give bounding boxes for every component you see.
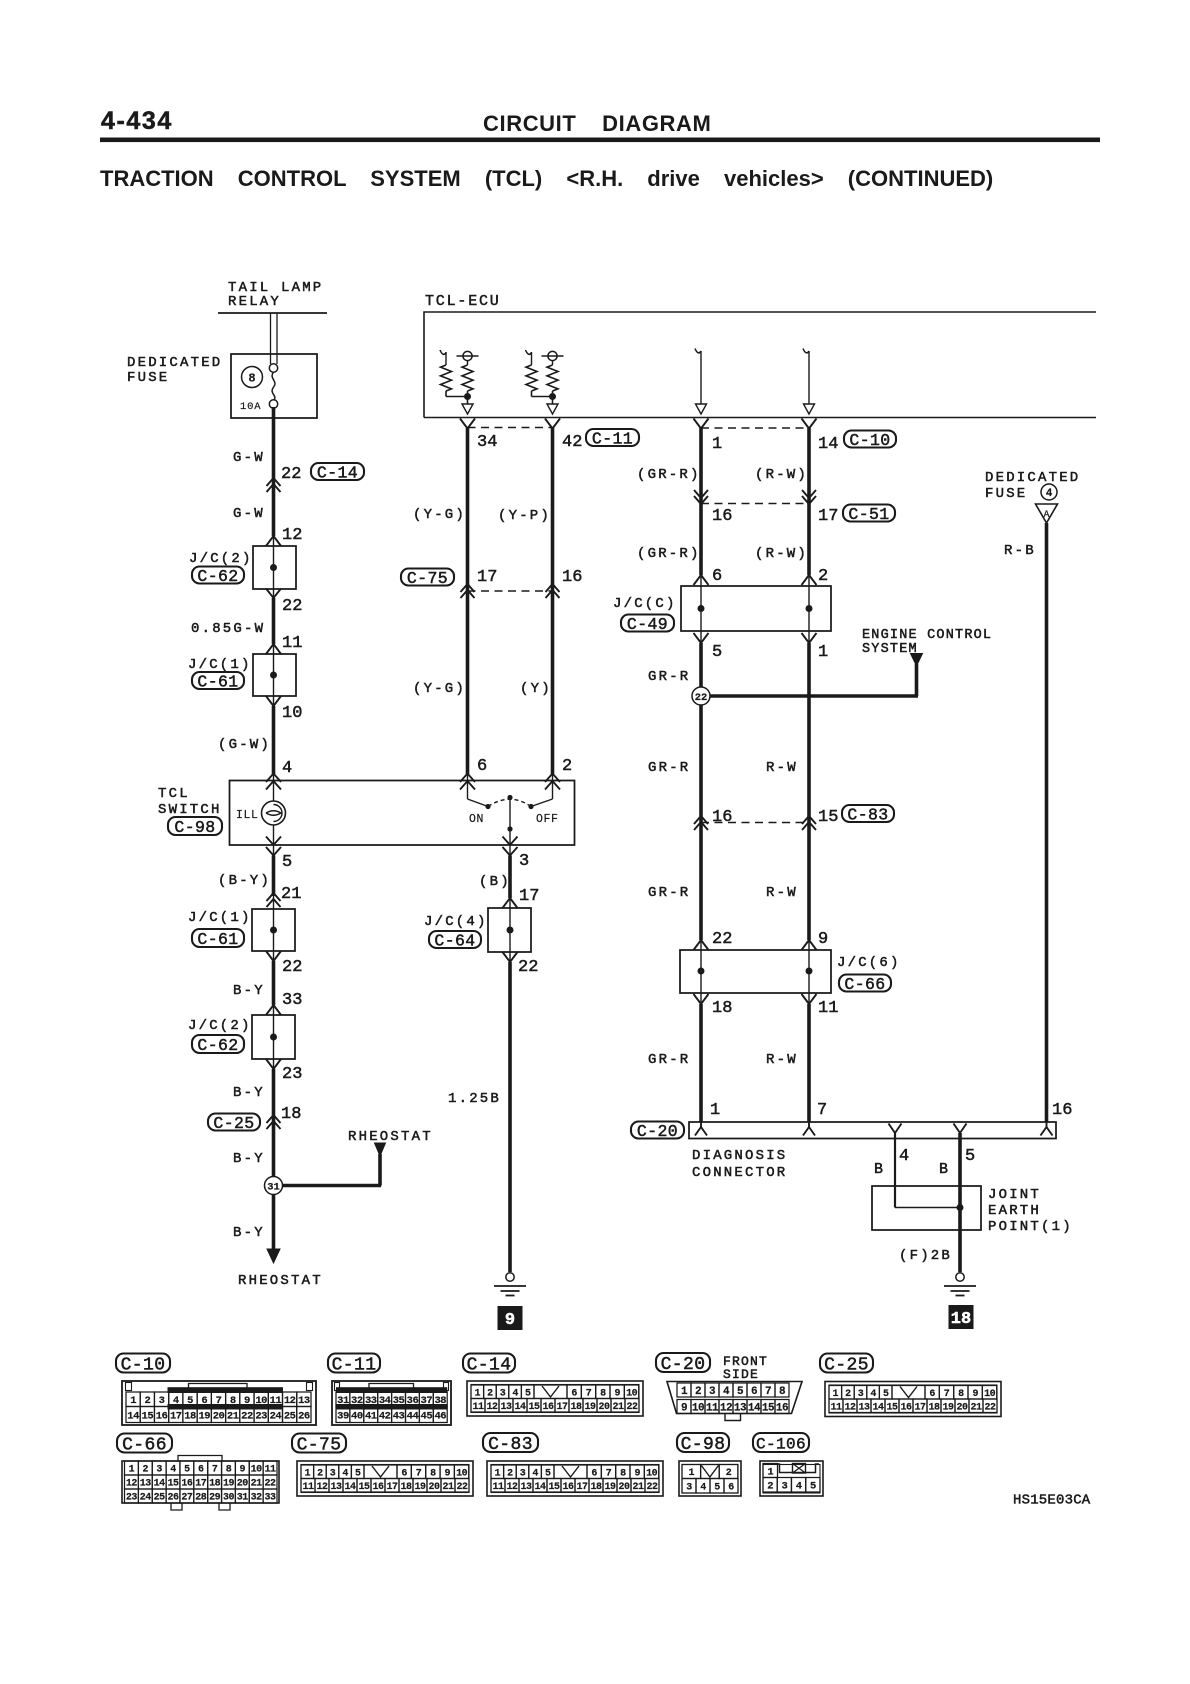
svg-text:16: 16 <box>372 1482 384 1493</box>
svg-text:19: 19 <box>414 1482 426 1493</box>
svg-text:24: 24 <box>140 1493 152 1504</box>
svg-text:32: 32 <box>251 1493 263 1504</box>
switch OFF contact <box>528 799 558 826</box>
svg-text:J/C(4): J/C(4) <box>424 914 488 930</box>
tail lamp relay bus line <box>218 312 327 314</box>
pin 22 and C-14 label <box>281 463 364 484</box>
svg-text:6: 6 <box>571 1388 577 1399</box>
ECU internal down arrow pin 1 <box>695 349 707 415</box>
label R-W third <box>766 885 798 901</box>
svg-text:10: 10 <box>456 1468 468 1479</box>
wire R-B <box>1045 523 1049 1122</box>
pin 11 <box>282 634 302 653</box>
pin 23 <box>282 1065 302 1084</box>
svg-text:11: 11 <box>492 1482 504 1493</box>
svg-text:13: 13 <box>520 1482 532 1493</box>
pin 5 <box>282 853 292 872</box>
dedicated fuse label left <box>127 355 222 386</box>
wires thin inside J/C(6) <box>701 950 809 993</box>
svg-text:8: 8 <box>226 1465 232 1476</box>
svg-text:1: 1 <box>130 1395 136 1407</box>
svg-text:31: 31 <box>267 1181 280 1193</box>
wire thin inside J/C(2) lower <box>273 1015 275 1059</box>
label B-Y bottom <box>233 1225 265 1241</box>
pin forks into J/C(6) <box>694 940 817 950</box>
svg-text:C-64: C-64 <box>434 931 475 950</box>
svg-text:22: 22 <box>712 930 732 949</box>
pin forks into J/C(C) <box>694 575 817 585</box>
svg-text:9: 9 <box>681 1402 687 1414</box>
svg-text:7: 7 <box>606 1468 612 1479</box>
svg-text:6: 6 <box>591 1468 597 1479</box>
pin 2 label <box>562 757 572 776</box>
svg-text:G-W: G-W <box>233 450 265 466</box>
label GR-R third <box>648 885 690 901</box>
svg-text:TCL-ECU: TCL-ECU <box>425 293 501 310</box>
connector crossing C-51 <box>694 490 816 504</box>
svg-text:3: 3 <box>781 1481 787 1493</box>
svg-text:22: 22 <box>518 958 538 977</box>
svg-text:19: 19 <box>223 1479 235 1490</box>
svg-text:17: 17 <box>170 1410 182 1422</box>
svg-text:45: 45 <box>421 1410 433 1422</box>
svg-text:GR-R: GR-R <box>648 1052 690 1068</box>
svg-text:14: 14 <box>127 1410 139 1422</box>
svg-text:C-62: C-62 <box>197 567 238 586</box>
ILL lamp symbol <box>236 801 286 825</box>
pin fork 10 below J/C(1) <box>266 696 281 706</box>
svg-text:20: 20 <box>956 1402 968 1413</box>
svg-text:OFF: OFF <box>536 813 559 826</box>
ECU pull-up resistor pair B <box>526 350 564 414</box>
pin fork 42 <box>545 419 560 429</box>
svg-text:RELAY: RELAY <box>228 294 281 310</box>
wire B switch to J/C(4) <box>509 846 511 908</box>
C-75 label and pins 17 16 <box>401 568 582 588</box>
pin 3 <box>519 852 529 871</box>
svg-text:3: 3 <box>686 1482 692 1493</box>
svg-text:33: 33 <box>282 991 302 1010</box>
svg-text:5: 5 <box>714 1482 720 1493</box>
connector pin fork 22 C-14 crossing <box>267 478 281 492</box>
svg-text:26: 26 <box>168 1493 180 1504</box>
svg-text:22: 22 <box>265 1479 277 1490</box>
pin fork 6 into switch <box>460 774 475 790</box>
svg-text:2: 2 <box>767 1481 773 1493</box>
pin 7 diag <box>817 1101 827 1120</box>
svg-text:(G-W): (G-W) <box>218 737 271 753</box>
connector crossing C-75 <box>461 584 560 598</box>
svg-text:(F)2B: (F)2B <box>899 1248 952 1264</box>
TCL-ECU label <box>425 293 501 310</box>
svg-text:13: 13 <box>734 1402 747 1414</box>
svg-text:7: 7 <box>586 1388 592 1399</box>
svg-text:J/C(6): J/C(6) <box>837 955 901 971</box>
J/C(C) label <box>613 596 677 634</box>
pin 12 <box>282 526 302 545</box>
label B-Y lower <box>233 1151 265 1167</box>
pin 2 JCC <box>818 567 828 586</box>
label 1.25B <box>448 1091 501 1107</box>
svg-text:14: 14 <box>818 435 838 454</box>
svg-text:9: 9 <box>240 1465 246 1476</box>
pin 42 and C-11 label <box>562 429 639 452</box>
svg-text:43: 43 <box>393 1410 405 1422</box>
svg-text:1: 1 <box>767 1466 773 1478</box>
label (Y-G) lower <box>413 681 466 697</box>
svg-text:4: 4 <box>532 1468 538 1479</box>
ground id 9 <box>498 1306 523 1330</box>
svg-text:11: 11 <box>830 1402 842 1413</box>
svg-text:9: 9 <box>818 930 828 949</box>
pin 17 and C-51 label <box>818 505 895 527</box>
svg-text:7: 7 <box>212 1465 218 1476</box>
svg-text:2: 2 <box>562 757 572 776</box>
svg-text:42: 42 <box>562 433 582 452</box>
rheostat branch label <box>348 1129 433 1145</box>
svg-text:31: 31 <box>237 1493 249 1504</box>
svg-text:14: 14 <box>534 1482 546 1493</box>
svg-text:1: 1 <box>818 643 828 662</box>
label (Y-G) upper <box>413 507 466 523</box>
svg-text:11: 11 <box>818 999 838 1018</box>
pin fork 2 into switch <box>545 774 560 790</box>
pin 34 <box>477 433 497 452</box>
svg-text:6: 6 <box>728 1482 734 1493</box>
label GR-R fourth <box>648 1052 690 1068</box>
pin fork 16 inside <box>1041 1122 1053 1136</box>
svg-text:5: 5 <box>355 1468 361 1479</box>
svg-text:22: 22 <box>626 1402 638 1413</box>
pin fork 11 into J/C(1) <box>266 644 281 654</box>
wire thin inside J/C(2) <box>273 546 275 589</box>
svg-text:16: 16 <box>712 808 732 827</box>
junction circle 31 <box>265 1177 283 1195</box>
connector view C-75 <box>292 1434 473 1497</box>
wire GR-R J/C(C) to J/C(6) <box>700 631 702 950</box>
engine control arrow <box>911 654 923 697</box>
pin 22 below J/C(2) <box>282 597 302 616</box>
svg-text:14: 14 <box>344 1482 356 1493</box>
connector crossing C-83 <box>694 816 816 830</box>
connector view C-11 <box>328 1354 451 1426</box>
label (R-W) upper <box>755 467 808 483</box>
rheostat branch arrow <box>375 1143 386 1186</box>
svg-text:18: 18 <box>400 1482 412 1493</box>
svg-text:FUSE: FUSE <box>127 370 169 386</box>
svg-text:21: 21 <box>612 1402 624 1413</box>
svg-text:15: 15 <box>142 1410 154 1422</box>
svg-text:22: 22 <box>984 1402 996 1413</box>
svg-text:C-66: C-66 <box>844 975 885 994</box>
pin fork 33 into J/C(2) lower <box>266 1005 281 1015</box>
svg-text:12: 12 <box>844 1402 856 1413</box>
svg-text:12: 12 <box>486 1402 498 1413</box>
wire thin inside J/C(4) <box>509 908 511 952</box>
svg-text:5: 5 <box>184 1465 190 1476</box>
svg-text:(Y-G): (Y-G) <box>413 681 466 697</box>
svg-text:C-14: C-14 <box>317 463 358 482</box>
svg-text:ENGINE CONTROL: ENGINE CONTROL <box>862 628 992 643</box>
pin 5 label <box>965 1147 975 1166</box>
svg-text:R-W: R-W <box>766 885 798 901</box>
svg-text:3: 3 <box>519 852 529 871</box>
TCL-ECU box outline <box>424 312 1096 418</box>
ground id 18 <box>949 1305 974 1329</box>
svg-text:11: 11 <box>706 1402 719 1414</box>
label (B) <box>479 874 511 890</box>
svg-text:4: 4 <box>899 1147 909 1166</box>
svg-text:21: 21 <box>281 885 301 904</box>
svg-text:39: 39 <box>337 1410 349 1422</box>
svg-text:(Y-G): (Y-G) <box>413 507 466 523</box>
svg-text:34: 34 <box>477 433 497 452</box>
svg-text:10: 10 <box>646 1468 658 1479</box>
pin fork 5 inside <box>954 1124 967 1134</box>
svg-text:B-Y: B-Y <box>233 1225 265 1241</box>
svg-text:HS15E03CA: HS15E03CA <box>1013 1493 1091 1509</box>
pin 18 below JC6 <box>712 999 732 1018</box>
pin forks 3 below switch <box>503 837 518 856</box>
svg-text:21: 21 <box>227 1410 239 1422</box>
svg-text:C-20: C-20 <box>661 1355 706 1375</box>
pin 18 and C-25 label <box>208 1105 301 1133</box>
svg-text:14: 14 <box>748 1402 761 1414</box>
connector view C-10 <box>116 1354 316 1426</box>
ILL lamp wire <box>273 781 275 845</box>
pin fork 17 into J/C(4) <box>503 898 518 908</box>
pin 4 label <box>899 1147 909 1166</box>
svg-text:9: 9 <box>614 1388 620 1399</box>
svg-text:5: 5 <box>525 1388 531 1399</box>
svg-text:20: 20 <box>598 1402 610 1413</box>
svg-text:25: 25 <box>284 1410 296 1422</box>
svg-text:16: 16 <box>181 1479 193 1490</box>
label (GR-R) upper <box>637 467 701 483</box>
svg-text:2: 2 <box>818 567 828 586</box>
wire B-Y J/C(1) to J/C(2) <box>273 951 275 1015</box>
junction circle 22 <box>692 687 710 705</box>
connector crossing C-25 pin 18 <box>267 1115 281 1129</box>
svg-text:4: 4 <box>700 1482 706 1493</box>
svg-text:22: 22 <box>456 1482 468 1493</box>
svg-text:46: 46 <box>434 1410 446 1422</box>
svg-text:C-98: C-98 <box>174 818 215 837</box>
svg-text:B-Y: B-Y <box>233 1085 265 1101</box>
svg-text:14: 14 <box>514 1402 526 1413</box>
C-20 label diagram <box>631 1122 684 1141</box>
svg-text:14: 14 <box>872 1402 884 1413</box>
svg-text:C-61: C-61 <box>197 672 238 691</box>
svg-text:3: 3 <box>156 1465 162 1476</box>
svg-text:J/C(2): J/C(2) <box>188 1018 252 1034</box>
svg-text:23: 23 <box>126 1493 138 1504</box>
svg-text:1: 1 <box>712 435 722 454</box>
engine control wire <box>710 694 918 698</box>
svg-text:RHEOSTAT: RHEOSTAT <box>348 1129 433 1145</box>
pin 22 below J/C(4) <box>518 958 538 977</box>
wire B J/C(4) to ground <box>509 952 511 1272</box>
svg-text:3: 3 <box>858 1389 864 1400</box>
svg-text:10: 10 <box>984 1389 996 1400</box>
svg-text:15: 15 <box>762 1402 775 1414</box>
J/C(2) upper label <box>189 551 253 586</box>
svg-text:20: 20 <box>237 1479 249 1490</box>
ECU pull-up resistor pair A <box>440 350 479 414</box>
svg-text:16: 16 <box>1052 1101 1072 1120</box>
svg-text:22: 22 <box>646 1482 658 1493</box>
svg-text:20: 20 <box>618 1482 630 1493</box>
joint earth point label <box>988 1187 1073 1235</box>
pin fork 22 below J/C(1) lower <box>266 951 281 961</box>
connector view C-14 <box>463 1354 643 1417</box>
svg-text:11: 11 <box>282 634 302 653</box>
pin fork 7 inside <box>803 1122 815 1136</box>
wire G-W fuse to J/C(2) <box>272 407 276 546</box>
svg-text:FUSE: FUSE <box>985 486 1027 502</box>
svg-text:8: 8 <box>620 1468 626 1479</box>
svg-text:JOINT: JOINT <box>988 1187 1041 1203</box>
svg-text:4-434: 4-434 <box>101 107 173 135</box>
label GR-R solid <box>648 669 690 685</box>
svg-text:4: 4 <box>1046 488 1053 500</box>
svg-text:R-W: R-W <box>766 760 798 776</box>
pin fork 4 into TCL switch <box>266 774 281 790</box>
wire B pin 5 <box>958 1133 962 1272</box>
svg-text:1: 1 <box>689 1468 695 1479</box>
dashed tie 1-14 <box>701 427 809 429</box>
label G-W second <box>233 506 265 522</box>
rheostat bottom label <box>238 1273 323 1289</box>
wire G-W J/C(2) to J/C(1) <box>273 589 275 654</box>
svg-text:17: 17 <box>576 1482 588 1493</box>
svg-text:8: 8 <box>958 1389 964 1400</box>
svg-text:40: 40 <box>351 1410 363 1422</box>
svg-text:18: 18 <box>281 1105 301 1124</box>
page header CIRCUIT DIAGRAM <box>483 111 711 136</box>
svg-text:17: 17 <box>477 568 497 587</box>
header rule <box>100 138 1100 143</box>
svg-text:5: 5 <box>712 643 722 662</box>
svg-text:(GR-R): (GR-R) <box>637 467 701 483</box>
svg-text:11: 11 <box>265 1465 277 1476</box>
junction box J/C(2) C-62 lower <box>252 1015 295 1059</box>
svg-text:10A: 10A <box>240 401 261 413</box>
svg-text:(R-W): (R-W) <box>755 546 808 562</box>
pin 9 JC6 <box>818 930 828 949</box>
svg-text:DIAGNOSIS: DIAGNOSIS <box>692 1148 787 1164</box>
svg-text:7: 7 <box>817 1101 827 1120</box>
svg-text:3: 3 <box>500 1388 506 1399</box>
svg-text:B-Y: B-Y <box>233 1151 265 1167</box>
svg-text:11: 11 <box>472 1402 484 1413</box>
svg-text:3: 3 <box>520 1468 526 1479</box>
svg-text:SIDE: SIDE <box>723 1367 759 1382</box>
svg-text:17: 17 <box>556 1402 568 1413</box>
svg-text:1: 1 <box>305 1468 311 1479</box>
svg-text:3: 3 <box>159 1395 165 1407</box>
svg-text:C-75: C-75 <box>407 569 448 588</box>
svg-text:4: 4 <box>796 1481 802 1493</box>
pin 10 <box>282 704 302 723</box>
pin 4 <box>282 759 292 778</box>
svg-text:C-75: C-75 <box>297 1435 342 1455</box>
joint earth internal wire <box>895 1204 964 1211</box>
J/C(2) lower label <box>188 1018 252 1055</box>
wire R-W J/C(6) to diagnosis <box>808 993 810 1122</box>
svg-text:18: 18 <box>951 1310 971 1329</box>
svg-text:19: 19 <box>584 1402 596 1413</box>
svg-text:17: 17 <box>519 887 539 906</box>
pin 16 C-83 <box>712 808 732 827</box>
svg-text:22: 22 <box>282 597 302 616</box>
svg-text:22: 22 <box>695 692 708 704</box>
svg-text:C-14: C-14 <box>467 1355 512 1375</box>
svg-text:C-25: C-25 <box>824 1355 869 1375</box>
svg-text:13: 13 <box>330 1482 342 1493</box>
label R-B <box>1004 543 1036 559</box>
connector view C-66 <box>117 1434 279 1511</box>
drawing code HS15E03CA <box>1013 1493 1091 1509</box>
svg-text:16: 16 <box>562 1482 574 1493</box>
svg-text:(Y): (Y) <box>520 681 552 697</box>
pin fork 1 <box>694 419 709 429</box>
svg-text:2: 2 <box>507 1468 513 1479</box>
svg-text:12: 12 <box>126 1479 138 1490</box>
svg-text:C-10: C-10 <box>121 1355 166 1375</box>
rheostat branch wire <box>282 1184 381 1188</box>
wire Y-P ecu to switch <box>551 428 555 781</box>
ground symbol left <box>494 1273 526 1296</box>
svg-text:1: 1 <box>681 1386 688 1398</box>
svg-text:C-10: C-10 <box>849 431 890 450</box>
svg-text:16: 16 <box>712 507 732 526</box>
svg-text:DEDICATED: DEDICATED <box>985 470 1080 486</box>
label R-W fourth <box>766 1052 798 1068</box>
svg-text:7: 7 <box>944 1389 950 1400</box>
svg-text:24: 24 <box>270 1410 282 1422</box>
label GR-R mid <box>648 760 690 776</box>
pin forks 5 below TCL switch <box>266 837 281 856</box>
pin 6 JCC <box>712 567 722 586</box>
svg-text:7: 7 <box>416 1468 422 1479</box>
svg-text:C-11: C-11 <box>332 1355 377 1375</box>
wire G-W J/C(1) to TCL switch <box>273 696 275 782</box>
svg-text:27: 27 <box>181 1493 193 1504</box>
svg-text:18: 18 <box>209 1479 221 1490</box>
dashed tie 16-15 <box>701 822 809 824</box>
svg-text:28: 28 <box>195 1493 207 1504</box>
junction box J/C(C) C-49 <box>681 586 831 631</box>
svg-text:2: 2 <box>726 1468 732 1479</box>
svg-text:4: 4 <box>170 1465 176 1476</box>
svg-text:C-20: C-20 <box>637 1122 678 1141</box>
pin 21 <box>281 885 301 904</box>
label B left <box>874 1161 883 1178</box>
svg-text:R-B: R-B <box>1004 543 1036 559</box>
svg-text:(B): (B) <box>479 874 511 890</box>
dashed tie 34-42 <box>468 427 553 429</box>
svg-text:16: 16 <box>156 1410 168 1422</box>
svg-text:21: 21 <box>970 1402 982 1413</box>
svg-text:R-W: R-W <box>766 1052 798 1068</box>
pin 16 diag <box>1052 1101 1072 1120</box>
svg-text:6: 6 <box>477 757 487 776</box>
svg-text:26: 26 <box>298 1410 310 1422</box>
wire B pin 4 <box>894 1133 896 1208</box>
svg-text:16: 16 <box>542 1402 554 1413</box>
svg-text:15: 15 <box>818 808 838 827</box>
